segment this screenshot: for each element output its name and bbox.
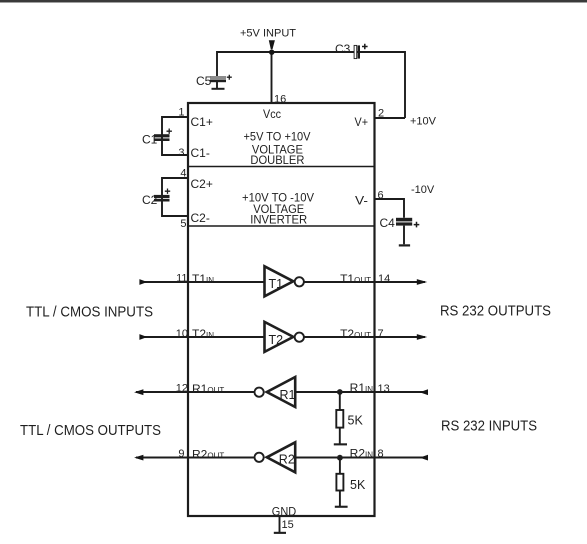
svg-text:T1IN: T1IN	[192, 272, 214, 286]
R1 input flow arrow	[420, 389, 428, 395]
svg-text:R2: R2	[279, 453, 295, 467]
T1 row output wire	[304, 281, 425, 283]
svg-text:14: 14	[378, 273, 390, 285]
svg-text:-10V: -10V	[411, 184, 435, 196]
C2 plus sign	[165, 189, 170, 194]
C1 plus sign	[167, 129, 172, 134]
svg-text:C1+: C1+	[191, 115, 213, 129]
op-amp R1 (receiver)	[255, 377, 296, 407]
svg-text:T1: T1	[269, 277, 284, 291]
svg-text:R1OUT: R1OUT	[192, 382, 224, 396]
wire pin6 to C4	[375, 199, 405, 218]
svg-text:RS 232 INPUTS: RS 232 INPUTS	[441, 417, 537, 434]
C1 loop wires	[162, 117, 188, 155]
svg-text:R2IN: R2IN	[350, 447, 374, 461]
C2 loop wires	[162, 178, 188, 216]
capacitor C2	[154, 195, 170, 202]
svg-text:15: 15	[282, 519, 294, 531]
T2 input flow arrow	[139, 334, 147, 340]
svg-text:C2-: C2-	[191, 211, 210, 225]
R1 row input wire	[295, 391, 426, 393]
R2 row input wire	[295, 457, 426, 459]
R2 input flow arrow	[420, 455, 428, 461]
node junction +5V	[269, 50, 274, 55]
svg-text:C2: C2	[142, 193, 158, 207]
svg-text:TTL / CMOS OUTPUTS: TTL / CMOS OUTPUTS	[20, 422, 161, 439]
op-amp R2 (receiver)	[255, 442, 296, 472]
C3 plus sign	[362, 44, 368, 50]
svg-text:5K: 5K	[350, 478, 366, 492]
svg-text:+10V: +10V	[410, 116, 437, 128]
svg-text:3: 3	[178, 147, 184, 159]
wire Vcc vertical to pin16	[271, 52, 273, 103]
node R2IN junction	[337, 455, 343, 461]
svg-text:T1OUT: T1OUT	[340, 272, 371, 286]
R2 output flow arrow	[134, 455, 143, 461]
R2 row output wire	[136, 457, 255, 459]
svg-text:+5V TO +10V: +5V TO +10V	[244, 129, 311, 143]
svg-text:V+: V+	[355, 115, 369, 129]
T2 row input wire	[140, 336, 265, 338]
svg-text:T2: T2	[269, 333, 284, 347]
svg-text:C4: C4	[380, 216, 396, 230]
svg-text:5: 5	[180, 218, 186, 230]
node R1IN junction	[337, 389, 343, 395]
svg-text:Vcc: Vcc	[263, 107, 281, 121]
svg-text:C5: C5	[196, 74, 212, 88]
svg-text:V-: V-	[355, 194, 368, 208]
C4 plus sign	[414, 222, 420, 228]
svg-text:5K: 5K	[348, 414, 364, 428]
capacitor C1	[154, 134, 170, 141]
svg-text:R1: R1	[280, 388, 296, 402]
op-amp T1 (driver)	[265, 266, 304, 296]
svg-text:12: 12	[176, 383, 188, 395]
R1 output flow arrow	[134, 389, 143, 395]
svg-text:7: 7	[378, 328, 384, 340]
svg-text:4: 4	[180, 168, 186, 180]
svg-text:9: 9	[178, 448, 184, 460]
svg-text:13: 13	[378, 383, 390, 395]
svg-text:T2IN: T2IN	[192, 327, 214, 341]
top page border	[0, 0, 587, 2]
svg-text:DOUBLER: DOUBLER	[250, 153, 304, 167]
svg-text:C1: C1	[142, 133, 158, 147]
IC function text doubler	[244, 129, 311, 167]
divider line (inverter section bottom)	[188, 225, 375, 227]
svg-text:RS 232 OUTPUTS: RS 232 OUTPUTS	[440, 303, 551, 320]
svg-text:+5V INPUT: +5V INPUT	[240, 28, 296, 40]
svg-text:C2+: C2+	[191, 177, 213, 191]
T1 output flow arrow	[417, 279, 427, 285]
capacitor C3	[354, 45, 360, 58]
T2 output flow arrow	[417, 334, 427, 340]
T1 input flow arrow	[139, 279, 147, 285]
svg-text:T2OUT: T2OUT	[340, 327, 371, 341]
svg-text:16: 16	[274, 94, 286, 106]
svg-text:10: 10	[176, 328, 188, 340]
wire C3 right to V+ corner	[360, 52, 405, 118]
divider line (doubler section bottom)	[188, 166, 375, 168]
T2 row output wire	[304, 336, 425, 338]
IC function text inverter	[242, 190, 314, 226]
op-amp T2 (driver)	[265, 322, 304, 352]
C5 plus sign	[227, 75, 232, 80]
wire +5V rail horizontal	[217, 52, 405, 76]
svg-text:R2OUT: R2OUT	[192, 448, 224, 462]
resistor 5K (R1 pulldown)	[334, 392, 347, 445]
svg-text:GND: GND	[272, 506, 296, 518]
ground symbol	[274, 516, 286, 534]
svg-text:C1-: C1-	[191, 146, 210, 160]
T1 row input wire	[140, 281, 265, 283]
svg-text:8: 8	[378, 448, 384, 460]
+5V input arrow	[269, 40, 275, 49]
wire pin2 stub	[375, 117, 406, 119]
svg-text:TTL / CMOS INPUTS: TTL / CMOS INPUTS	[26, 304, 153, 321]
capacitor C5	[210, 76, 226, 90]
resistor 5K (R2 pulldown)	[335, 458, 348, 508]
svg-text:INVERTER: INVERTER	[250, 212, 307, 226]
svg-text:R1IN: R1IN	[350, 381, 374, 395]
svg-text:2: 2	[378, 108, 384, 120]
R1 row output wire	[136, 391, 255, 393]
svg-text:11: 11	[176, 273, 187, 285]
svg-text:1: 1	[178, 107, 184, 119]
capacitor C4	[396, 218, 412, 247]
svg-text:C3: C3	[335, 42, 351, 56]
IC U1 body	[188, 103, 375, 516]
